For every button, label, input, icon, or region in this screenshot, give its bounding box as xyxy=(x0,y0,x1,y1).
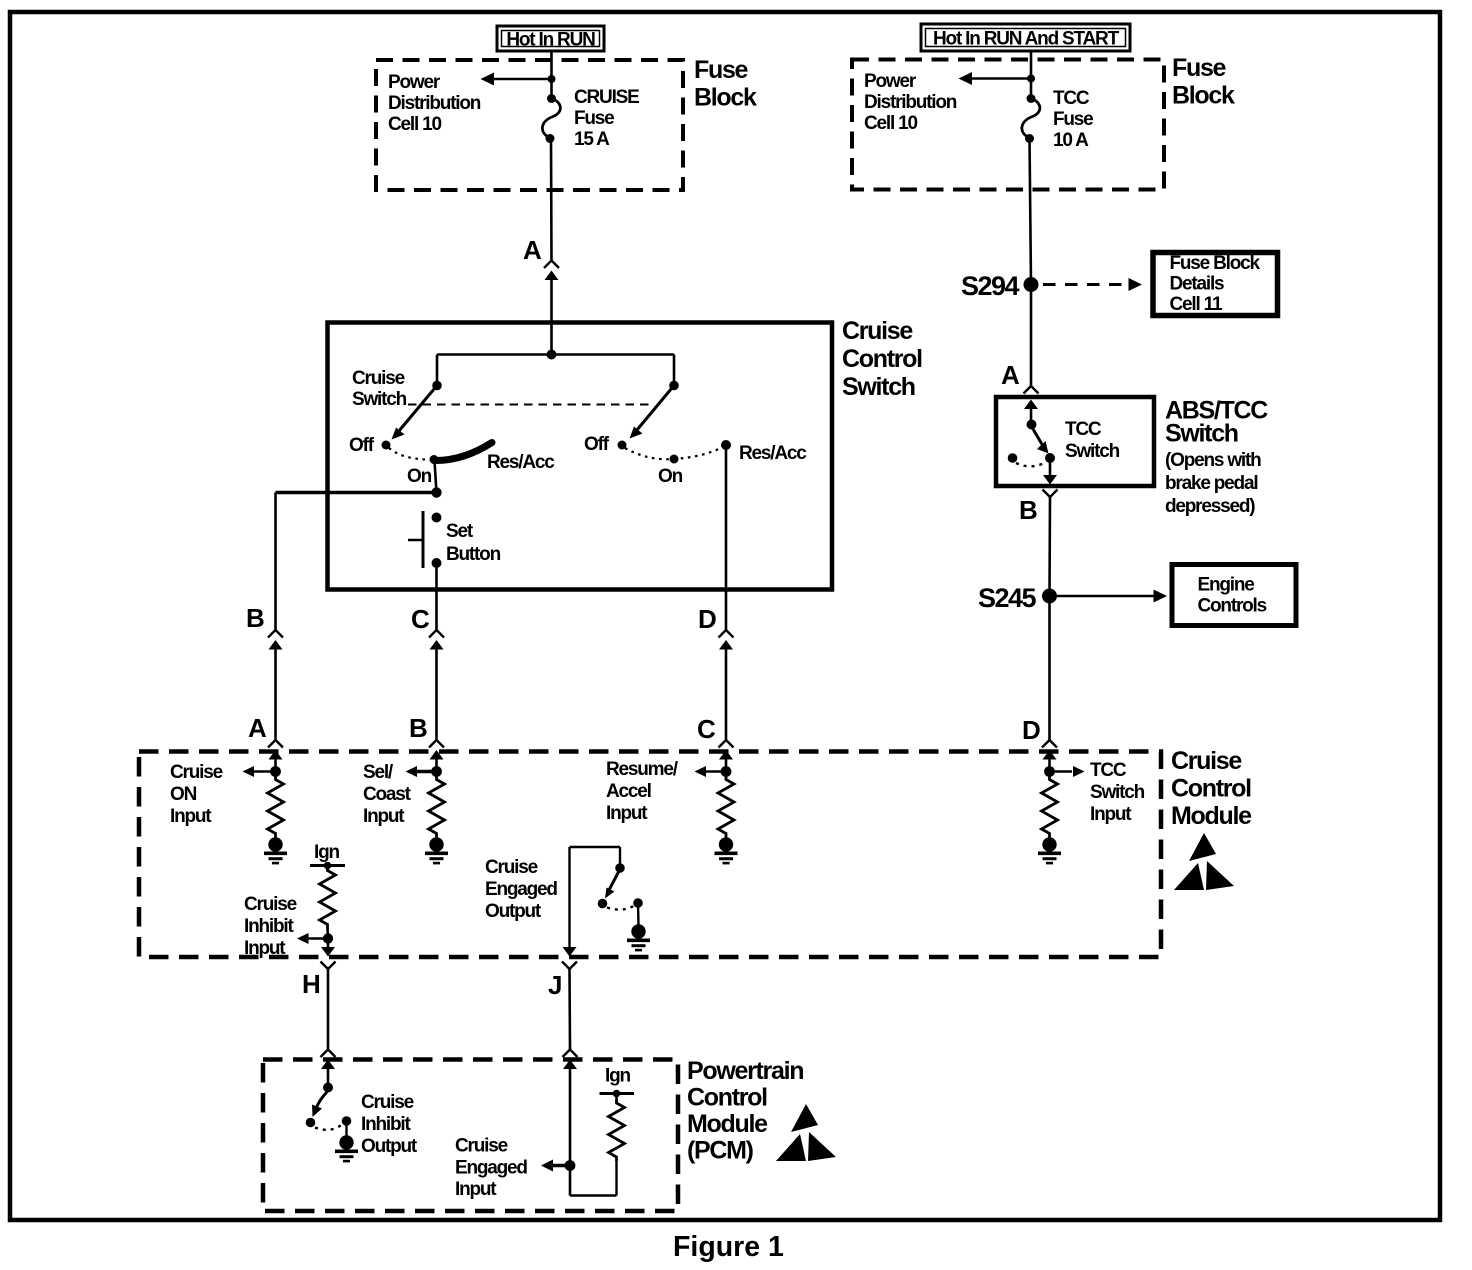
contact (TCC closed) with wire down xyxy=(1045,453,1055,463)
fuse block (left) dashed box xyxy=(376,60,683,190)
contact (cruise engaged open) xyxy=(598,899,608,909)
svg-text:Output: Output xyxy=(361,1136,418,1157)
resistor (Resume/Accel pull-down) xyxy=(718,777,734,838)
ESD sensitivity symbol (PCM) xyxy=(776,1104,836,1161)
wire from Hot In RUN into fuse block xyxy=(550,51,553,97)
arrow to Power Distribution (right) xyxy=(969,77,1031,80)
svg-text:Switch: Switch xyxy=(842,373,915,401)
fuse block (right) dashed box xyxy=(852,60,1164,190)
svg-text:Module: Module xyxy=(687,1110,768,1138)
arrow Set/Coast input xyxy=(416,770,437,773)
svg-text:(Opens with: (Opens with xyxy=(1165,450,1261,471)
svg-text:TCC: TCC xyxy=(1053,88,1090,109)
svg-text:Cruise: Cruise xyxy=(485,857,538,878)
node: Cruise Inhibit junction xyxy=(323,933,333,943)
arrow Cruise Inhibit input xyxy=(308,937,328,940)
svg-text:Power: Power xyxy=(388,72,441,93)
switch (TCC) arm xyxy=(1033,429,1043,446)
svg-text:ON: ON xyxy=(170,784,197,805)
arrow S245 to Engine Controls xyxy=(1050,595,1155,598)
set button actuator plate xyxy=(422,511,425,568)
contact Off (right) xyxy=(618,441,627,450)
ground (Cruise ON) xyxy=(264,837,287,863)
svg-text:B: B xyxy=(246,603,265,633)
svg-text:A: A xyxy=(523,235,542,265)
svg-text:Control: Control xyxy=(1171,775,1251,803)
svg-text:Control: Control xyxy=(687,1084,767,1112)
arrow TCC Switch input (points right) xyxy=(1050,770,1073,773)
node: Resume/Accel pin junction xyxy=(721,766,732,777)
svg-text:C: C xyxy=(697,714,716,744)
svg-text:TCC: TCC xyxy=(1065,419,1102,440)
resistor (Cruise ON pull-down) xyxy=(268,777,284,838)
svg-text:Engine: Engine xyxy=(1198,575,1255,596)
switch S1b pivot xyxy=(669,381,679,391)
svg-text:Engaged: Engaged xyxy=(455,1158,527,1179)
wire set button to C drop xyxy=(435,563,438,630)
pin B connector (module) xyxy=(429,740,444,760)
svg-text:Inhibit: Inhibit xyxy=(361,1114,411,1135)
svg-text:Cruise: Cruise xyxy=(361,1092,414,1113)
wire contact to ground xyxy=(345,1121,347,1136)
contact (cruise engaged ground side) xyxy=(633,898,643,908)
svg-text:Distribution: Distribution xyxy=(388,93,481,114)
svg-text:Res/Acc: Res/Acc xyxy=(739,443,807,464)
switch (cruise inhibit) pivot xyxy=(323,1083,333,1093)
svg-text:Figure 1: Figure 1 xyxy=(673,1231,784,1263)
svg-text:On: On xyxy=(407,466,432,487)
label box "Hot In RUN" xyxy=(497,26,604,51)
node: feed junction xyxy=(547,350,557,360)
svg-text:TCC: TCC xyxy=(1090,760,1127,781)
svg-text:Power: Power xyxy=(864,71,917,92)
resistor (Set/Coast pull-down) xyxy=(429,777,445,838)
svg-text:Engaged: Engaged xyxy=(485,879,557,900)
svg-text:10 A: 10 A xyxy=(1053,130,1089,151)
svg-text:S245: S245 xyxy=(978,583,1037,613)
arrow to Power Distribution (left) xyxy=(491,78,552,81)
svg-text:Cruise: Cruise xyxy=(170,762,223,783)
svg-text:Input: Input xyxy=(363,806,405,827)
svg-text:Block: Block xyxy=(1172,82,1235,110)
svg-text:Accel: Accel xyxy=(606,781,651,802)
svg-text:Block: Block xyxy=(694,84,757,112)
svg-text:Fuse Block: Fuse Block xyxy=(1170,253,1261,274)
contact On (left) xyxy=(430,455,439,464)
svg-text:S294: S294 xyxy=(961,271,1020,301)
svg-text:Input: Input xyxy=(170,806,212,827)
set button upper contact xyxy=(432,513,442,523)
svg-text:Switch: Switch xyxy=(1165,420,1238,448)
fuse F2 TCC 10 A xyxy=(1027,94,1036,103)
splice S294 xyxy=(1024,277,1039,292)
contact (cruise inhibit ground side) xyxy=(342,1116,352,1126)
wire S294 to connector A (right) xyxy=(1030,285,1033,386)
svg-text:Control: Control xyxy=(842,345,922,373)
contact Off (left) xyxy=(382,441,391,450)
wire B to S245 xyxy=(1048,497,1051,596)
svg-text:Cell 11: Cell 11 xyxy=(1170,294,1223,315)
wire S245 to module pin D xyxy=(1048,596,1051,740)
svg-text:Hot In RUN: Hot In RUN xyxy=(506,30,595,51)
svg-text:Resume/: Resume/ xyxy=(606,759,679,780)
svg-text:Cruise: Cruise xyxy=(244,894,297,915)
svg-text:Switch: Switch xyxy=(352,389,407,410)
svg-text:B: B xyxy=(409,713,428,743)
svg-text:Off: Off xyxy=(584,434,610,455)
Ign supply tap (module) xyxy=(310,864,345,867)
dotted throw line (cruise inhibit) xyxy=(315,1125,342,1130)
wire pin J inside PCM xyxy=(569,1069,572,1196)
svg-text:Cell 10: Cell 10 xyxy=(864,113,917,134)
connector J into PCM xyxy=(563,1050,578,1070)
wire fuse to S294 xyxy=(1030,139,1032,285)
connector A (fork + pin arrow) xyxy=(544,261,559,281)
set button lower contact xyxy=(432,558,442,568)
dotted travel arc Off-On-Res/Acc (right) xyxy=(625,447,723,459)
box "Fuse Block Details Cell 11" xyxy=(1153,253,1278,316)
wire C to module xyxy=(435,650,438,740)
svg-text:Details: Details xyxy=(1170,274,1225,295)
svg-text:depressed): depressed) xyxy=(1165,496,1255,517)
svg-text:CRUISE: CRUISE xyxy=(574,87,639,108)
wire D to module xyxy=(725,650,728,740)
switch (cruise inhibit) arm xyxy=(316,1092,328,1110)
dotted throw line (cruise engaged) xyxy=(607,906,634,910)
mechanical link dashed line xyxy=(408,404,652,406)
switch S1a arm (points to Off) xyxy=(399,386,438,432)
ground (cruise engaged) xyxy=(627,924,650,950)
svg-text:Powertrain: Powertrain xyxy=(687,1057,803,1085)
svg-text:Sel/: Sel/ xyxy=(363,762,394,783)
node: On/B junction xyxy=(431,487,441,497)
arrow Resume/Accel input xyxy=(705,770,726,773)
wire On contact down to B branch xyxy=(435,461,437,493)
svg-text:Cruise: Cruise xyxy=(352,368,405,389)
wire bottom run to Ign resistor xyxy=(570,1194,617,1196)
svg-text:On: On xyxy=(658,466,683,487)
switch S1b arm (points to Off) xyxy=(637,386,675,431)
pin C connector (module) xyxy=(719,740,734,760)
switch (cruise engaged) arm xyxy=(609,872,619,891)
svg-text:C: C xyxy=(411,604,430,634)
fuse F1 CRUISE 15 A xyxy=(547,94,556,103)
svg-text:brake pedal: brake pedal xyxy=(1165,473,1257,494)
svg-text:D: D xyxy=(1022,715,1041,745)
svg-text:Fuse: Fuse xyxy=(1053,109,1093,130)
contact (TCC open side) xyxy=(1008,453,1018,463)
connector H into PCM xyxy=(321,1050,336,1070)
label box "Hot In RUN And START" xyxy=(921,24,1130,51)
svg-text:Coast: Coast xyxy=(363,784,412,805)
arrow Cruise ON input xyxy=(253,770,276,773)
svg-text:Off: Off xyxy=(349,435,375,456)
wire B to module xyxy=(274,650,277,740)
svg-text:Cell 10: Cell 10 xyxy=(388,114,441,135)
wire pin C to resistor xyxy=(725,759,728,777)
wire H to PCM xyxy=(327,969,330,1049)
switch (cruise engaged) pivot xyxy=(615,863,625,873)
wire resistor to H junction xyxy=(326,929,329,939)
svg-text:Cruise: Cruise xyxy=(1171,747,1242,775)
svg-text:Fuse: Fuse xyxy=(574,108,614,129)
wire Res/Acc to D drop xyxy=(725,445,728,630)
ground (TCC Switch) xyxy=(1038,837,1061,863)
wire junction to pin H xyxy=(327,939,330,948)
Cruise Control Module dashed box xyxy=(139,752,1161,958)
svg-text:D: D xyxy=(698,604,717,634)
svg-text:Fuse: Fuse xyxy=(1172,54,1227,82)
wire pin A inside ABS/TCC box xyxy=(1030,408,1033,421)
connector A (right): fork xyxy=(1024,386,1039,394)
svg-text:Input: Input xyxy=(455,1179,497,1200)
svg-text:15 A: 15 A xyxy=(574,129,610,150)
svg-text:Set: Set xyxy=(446,521,474,542)
Cruise Control Switch box xyxy=(328,323,833,590)
resistor (PCM Ign pull-up) xyxy=(609,1100,625,1161)
svg-text:Cruise: Cruise xyxy=(842,317,913,345)
svg-text:Input: Input xyxy=(606,803,648,824)
node: Set/Coast pin junction xyxy=(431,766,442,777)
contact (cruise inhibit open) xyxy=(306,1118,316,1128)
svg-text:J: J xyxy=(548,970,562,1000)
wire from Hot In RUN And START into fuse block xyxy=(1030,51,1033,97)
svg-text:Inhibit: Inhibit xyxy=(244,916,294,937)
pin arrow out of ABS/TCC box xyxy=(1043,475,1058,497)
dotted throw line (TCC) xyxy=(1016,463,1043,466)
wire fuse to connector A xyxy=(550,139,553,261)
pin D connector (module) xyxy=(1042,740,1057,760)
connector B xyxy=(268,630,283,650)
wire J to PCM xyxy=(568,969,571,1049)
svg-text:Switch: Switch xyxy=(1090,782,1145,803)
svg-text:Hot In RUN And START: Hot In RUN And START xyxy=(933,29,1120,50)
ESD sensitivity symbol (module) xyxy=(1174,833,1234,890)
connector C xyxy=(429,630,444,650)
svg-text:Module: Module xyxy=(1171,802,1252,830)
dashed arrow S294 to Fuse Block Details xyxy=(1043,283,1128,286)
svg-text:(PCM): (PCM) xyxy=(687,1137,754,1165)
contact Res/Acc (right) xyxy=(721,440,731,450)
svg-text:Switch: Switch xyxy=(1065,441,1120,462)
pin J connector (module out) xyxy=(562,947,577,969)
svg-text:Cruise: Cruise xyxy=(455,1136,508,1157)
arrow cruise engaged input xyxy=(552,1164,570,1167)
Powertrain Control Module dashed box xyxy=(263,1060,678,1212)
svg-text:Output: Output xyxy=(485,901,542,922)
svg-text:Fuse: Fuse xyxy=(694,56,749,84)
svg-text:Ign: Ign xyxy=(314,842,339,863)
resistor (Cruise Inhibit pull-up) xyxy=(320,868,336,929)
svg-text:Res/Acc: Res/Acc xyxy=(487,452,555,473)
node: Cruise ON pin junction xyxy=(270,766,281,777)
connector A (right): pin arrow xyxy=(1024,400,1038,410)
wire pin B to resistor xyxy=(435,759,438,777)
wire cruise engaged output top run xyxy=(570,846,621,848)
svg-text:Controls: Controls xyxy=(1198,596,1267,617)
svg-text:Input: Input xyxy=(1090,804,1132,825)
thick wiper arc to Res/Acc (left) xyxy=(434,443,492,461)
svg-text:A: A xyxy=(248,713,267,743)
wire connector A to switch xyxy=(550,280,553,355)
switch (TCC) pivot xyxy=(1027,420,1037,430)
svg-text:Ign: Ign xyxy=(605,1066,630,1087)
Ign supply tap (PCM) xyxy=(600,1092,635,1095)
svg-text:Distribution: Distribution xyxy=(864,92,957,113)
wire contact to ground xyxy=(637,903,640,925)
ground (cruise inhibit) xyxy=(335,1135,358,1161)
pin H connector (module out) xyxy=(321,947,336,969)
svg-text:H: H xyxy=(302,969,321,999)
svg-text:B: B xyxy=(1019,495,1038,525)
ground (Resume/Accel) xyxy=(715,837,738,863)
svg-text:A: A xyxy=(1001,360,1020,390)
wire pin D to resistor xyxy=(1048,759,1051,777)
contact On (right) xyxy=(670,455,679,464)
resistor (TCC Switch pull-down) xyxy=(1042,777,1058,838)
wire: switch feed bus xyxy=(437,353,674,356)
box "Engine Controls" xyxy=(1172,565,1296,626)
ABS/TCC Switch box xyxy=(996,397,1154,486)
dotted travel arc Off-On (left) xyxy=(389,448,429,460)
wire to B drop xyxy=(276,491,437,495)
node: cruise engaged input junction xyxy=(565,1160,576,1171)
pin A connector (module) xyxy=(268,740,283,760)
switch S1a pivot xyxy=(432,381,442,391)
connector D xyxy=(719,630,734,650)
wire pin H inside PCM xyxy=(327,1069,330,1084)
splice S245 xyxy=(1042,589,1057,604)
svg-text:Input: Input xyxy=(244,938,286,959)
wire pin A to resistor xyxy=(274,759,277,777)
svg-text:Button: Button xyxy=(446,544,501,565)
node: TCC Switch pin junction xyxy=(1044,766,1055,777)
ground (Set/Coast) xyxy=(425,837,448,863)
